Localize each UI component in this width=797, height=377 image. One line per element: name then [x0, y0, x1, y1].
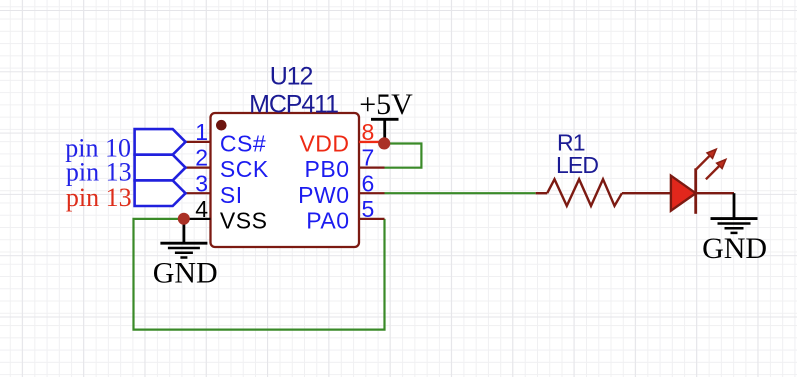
wire net +5V loop from pin 8 junction to pin 7 (PB0) [384, 144, 421, 168]
svg-text:1: 1 [195, 119, 208, 145]
svg-text:LED: LED [556, 152, 598, 178]
svg-text:SCK: SCK [220, 156, 269, 182]
pin 2 stub (SCK) [186, 167, 211, 169]
svg-text:GND: GND [153, 256, 218, 289]
pin 4 stub (VSS) black [184, 218, 211, 220]
svg-text:7: 7 [362, 145, 375, 171]
svg-text:pin 13: pin 13 [66, 183, 132, 212]
pin 3 stub (SI) [186, 192, 211, 194]
wire net PW0 from pin 6 to resistor R1 [385, 192, 536, 194]
svg-text:MCP411: MCP411 [249, 91, 338, 119]
svg-text:GND: GND [702, 232, 767, 265]
wire net GND loop from pin 5 (PA0) to pin 4 junction [134, 219, 385, 330]
svg-text:VSS: VSS [220, 208, 268, 234]
pin 6 stub (PW0) [359, 192, 385, 194]
resistor R1 [536, 179, 671, 206]
wire LED cathode to GND [696, 192, 734, 194]
svg-text:PW0: PW0 [298, 182, 349, 208]
power symbol +5V [371, 119, 399, 143]
junction dot at pin 8 / +5V [378, 137, 390, 149]
ground symbol right [711, 193, 758, 233]
pin-1 indicator dot [216, 120, 227, 131]
svg-text:8: 8 [362, 119, 375, 145]
svg-text:5: 5 [362, 196, 375, 222]
junction dot at pin 4 / GND [178, 213, 190, 225]
svg-text:4: 4 [195, 196, 208, 222]
pin 7 stub (PB0) [359, 167, 385, 169]
port flag pin 13 (second) [135, 180, 186, 206]
emission arrow 2 [706, 159, 726, 179]
emission arrow 1 [696, 149, 716, 169]
svg-text:3: 3 [195, 170, 208, 196]
svg-text:CS#: CS# [220, 131, 266, 157]
pin 1 stub (CS#) [186, 141, 211, 143]
LED D1 [671, 149, 726, 214]
svg-text:2: 2 [195, 145, 208, 171]
svg-text:+5V: +5V [359, 88, 413, 121]
svg-text:VDD: VDD [299, 131, 349, 157]
pin 5 stub (PA0) [359, 218, 385, 220]
svg-text:U12: U12 [270, 63, 313, 91]
pin 8 stub (VDD) red [359, 141, 384, 143]
port flag pin 13 [135, 155, 186, 181]
svg-text:SI: SI [220, 182, 243, 208]
IC U1 body (U12 MCP411) [211, 113, 360, 247]
svg-text:6: 6 [362, 170, 375, 196]
ground symbol left [160, 219, 207, 258]
port flag pin 10 [135, 129, 186, 155]
svg-text:PA0: PA0 [306, 208, 349, 234]
svg-text:PB0: PB0 [305, 156, 350, 182]
